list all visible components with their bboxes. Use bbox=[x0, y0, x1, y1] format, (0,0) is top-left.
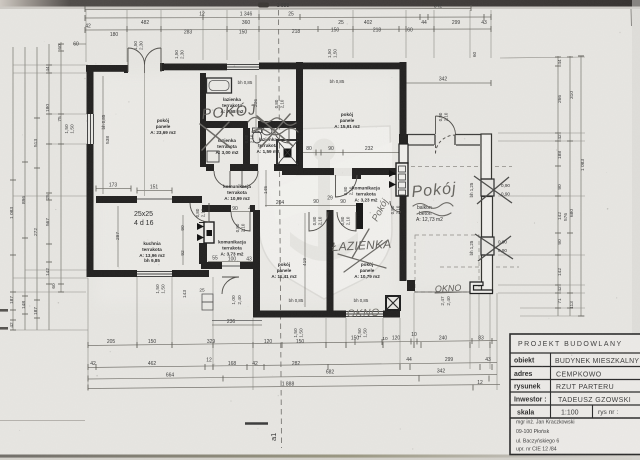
wall piece corridor east below north wall bbox=[399, 144, 408, 163]
top dimension chain line 2 bbox=[85, 17, 491, 18]
vertical interior dims bbox=[102, 76, 104, 194]
wall kitchen east bbox=[199, 222, 207, 223]
faint right edge shading bbox=[632, 0, 640, 460]
left extension lines bbox=[13, 65, 88, 330]
window size labels right bbox=[498, 183, 510, 253]
wall north of right wing: thin parapet lines bbox=[408, 135, 491, 146]
right extension lines bbox=[498, 57, 585, 316]
door right wing: leaf and swing arcs bbox=[435, 116, 437, 134]
wall north of right wing: junction block bbox=[399, 134, 408, 146]
door corridor to room 10,79 bbox=[337, 212, 356, 231]
window kitchen south bbox=[137, 272, 172, 277]
room label pokoj 11,41 bbox=[271, 262, 297, 279]
washbasin bathroom 3,00 bbox=[207, 151, 219, 162]
room label lazienka 7,68 bbox=[221, 97, 244, 114]
title block table bbox=[510, 334, 640, 455]
wall east of right wing segments (outlined parapet) bbox=[481, 134, 493, 292]
wall bathroom middle horizontal bbox=[206, 121, 248, 128]
rotated small labels near entrance bbox=[133, 41, 477, 59]
shaft box with cross in bathroom 1,59 bbox=[277, 140, 298, 165]
wall east of room 10,79 bbox=[400, 208, 407, 281]
left chain rotated labels bbox=[9, 44, 76, 328]
room label komunikacja 10,99 bbox=[223, 184, 251, 201]
wall hall south with exit door gap bbox=[201, 262, 222, 269]
top dimension chain line 3 bbox=[85, 29, 491, 30]
exit door south bbox=[222, 277, 239, 294]
porch edge line bbox=[212, 320, 262, 322]
wall corridor east vertical bbox=[400, 62, 407, 134]
interior dims 173 and 151 above kitchen wall bbox=[96, 188, 131, 190]
top chain tick marks bbox=[85, 5, 491, 33]
window top over bathroom bbox=[227, 65, 259, 70]
balcony dashed outline bbox=[411, 166, 512, 168]
room label balkon 12,73 bbox=[416, 205, 443, 223]
X cross over bathroom 3,00 bbox=[200, 122, 231, 150]
interior dimension row in komunikacja 3,73 bottom bbox=[208, 261, 253, 263]
wall top-middle exterior bbox=[161, 64, 227, 71]
room label pokoj 23,69 bbox=[150, 118, 176, 135]
wall left exterior lower bbox=[87, 144, 94, 277]
entrance door jambs bbox=[124, 65, 128, 73]
left dimension chain vertical lines bbox=[12, 47, 14, 330]
room label pokoj 10,79 bbox=[354, 262, 380, 279]
toilet bbox=[253, 131, 262, 143]
interior dimension row in komunikacja 3,73 top bbox=[213, 211, 256, 213]
bottom extension lines bbox=[88, 277, 497, 390]
door bathroom 7,68 bbox=[274, 128, 289, 143]
bottom dimension chain line 1 bbox=[88, 341, 497, 346]
rebar note 25x25 bbox=[134, 211, 154, 227]
door to kitchen bbox=[190, 203, 209, 222]
left chain ticks bbox=[10, 44, 64, 330]
bottom dimension chain line 3 bbox=[88, 375, 497, 380]
room label komunikacja 3,23 bbox=[352, 186, 380, 203]
wall komunikacja 3,73 north bbox=[202, 205, 231, 212]
washbasin bathroom 1,59 bbox=[262, 127, 272, 135]
interior dimension row above bottom rooms bbox=[265, 205, 362, 207]
door room 10,79 north bbox=[390, 201, 401, 212]
right dimension chain vertical lines bbox=[557, 56, 559, 316]
room label komunikacja 3,73 bbox=[218, 240, 246, 257]
interior dimension row in pokoj 15,91 bbox=[303, 152, 399, 154]
bathtub bbox=[207, 78, 232, 93]
scan dark line at bottom edge bbox=[0, 455, 640, 458]
wall kitchen north bbox=[96, 196, 137, 203]
black duct bar bbox=[356, 203, 363, 229]
window south bottom rooms bbox=[346, 312, 383, 317]
corridor width dimension 342 bbox=[406, 82, 491, 84]
wall between bottom rooms bbox=[327, 210, 334, 311]
room label lazienka 3,00 bbox=[216, 138, 239, 155]
door corridor to room 11,41 bbox=[309, 212, 328, 231]
window X right wing upper bbox=[481, 179, 494, 196]
wall between small bathrooms bbox=[243, 128, 250, 164]
window X bottom right bbox=[386, 296, 400, 310]
scan dark strip at top edge bbox=[0, 0, 640, 7]
wall top-left exterior bbox=[86, 65, 127, 72]
wall left exterior upper bbox=[87, 65, 94, 114]
underline okno balcony bbox=[435, 292, 462, 293]
window X right wing lower bbox=[481, 237, 494, 255]
corridor ventilation shaft bbox=[396, 163, 408, 196]
bh labels bbox=[101, 79, 474, 303]
entrance double door arcs bbox=[127, 48, 129, 72]
bottom dimension chain line 2 bbox=[88, 363, 497, 368]
right chain ticks bbox=[555, 56, 584, 316]
wall south of right wing (outlined parapet) bbox=[470, 282, 493, 294]
entrance steps outside bbox=[202, 294, 213, 302]
top chain labels bbox=[73, 3, 487, 48]
right chain rotated labels bbox=[557, 59, 586, 309]
wall south of bottom rooms bbox=[253, 311, 346, 318]
window left wall bbox=[88, 114, 94, 144]
a1 section mark bbox=[245, 422, 268, 424]
wall west of room 11,41 bbox=[253, 210, 260, 318]
wall between pokoj and bathrooms bbox=[200, 73, 206, 167]
door komunikacja 3,73 bbox=[231, 212, 250, 231]
door bathroom 3,00 bbox=[214, 171, 230, 187]
wall kitchen south b bbox=[172, 270, 209, 277]
left edge small tick bbox=[73, 43, 86, 45]
pillar at balcony opening bbox=[407, 280, 415, 291]
watermark shield bbox=[258, 126, 392, 299]
door size labels bbox=[195, 99, 449, 232]
porch dimension 236 bbox=[212, 324, 262, 326]
bottom dimension chain line 4 bbox=[88, 385, 500, 389]
wall kitchen south a bbox=[87, 270, 138, 277]
wall corridor south segments bbox=[282, 168, 334, 175]
bottom chain ticks bbox=[88, 338, 492, 391]
scribble over balkon label bbox=[413, 203, 453, 209]
room label pokoj 15,91 bbox=[334, 112, 360, 129]
wall bathroom east bbox=[296, 62, 303, 168]
room label lazienka 1,59 bbox=[257, 137, 280, 154]
strike through LAZIENKA bbox=[352, 229, 369, 258]
X cross over bathroom 1,59 bbox=[257, 114, 293, 148]
wall bathroom south segments bbox=[206, 164, 214, 171]
scribble right of POKOJ bbox=[248, 117, 296, 125]
top extension lines bbox=[86, 10, 491, 62]
a1 axis dashed line bbox=[279, 10, 282, 448]
room label kuchnia 13,96 bbox=[139, 241, 165, 263]
bottom chain labels bbox=[90, 332, 491, 388]
wall top-right exterior bbox=[259, 63, 406, 70]
top dimension chain line 1 bbox=[85, 9, 471, 10]
kitchen chimney flue bbox=[204, 222, 214, 243]
door pokoj 15,91 to corridor bbox=[335, 175, 357, 197]
door bathroom 1,59 bbox=[242, 171, 258, 187]
